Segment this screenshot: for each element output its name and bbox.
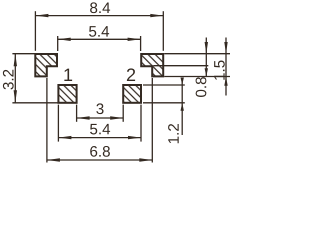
dim 3.2 text (rotated) xyxy=(3,70,14,90)
pad top-right (L-shape mirrored) xyxy=(141,54,163,76)
dim 0.8 arrow bottom (down, tip at 76.5) xyxy=(205,68,208,76)
dim 8.4 text xyxy=(90,2,110,13)
dim 6.8 extension line right xyxy=(151,78,153,163)
right side: extension line pad step (y=65.7) xyxy=(153,65,208,67)
dim 0.8 text (rotated) xyxy=(196,77,207,97)
dim 5.4 bottom arrow right xyxy=(128,136,141,139)
dim 8.4 extension line right xyxy=(162,11,164,51)
dim 1.2 extension line bottom (y=102.8) xyxy=(143,102,185,104)
dim 3.2 extension line top xyxy=(12,53,34,55)
right side: extension line pad top (y=53.7) xyxy=(164,53,230,55)
dim 1.2 extension line top (y=85) xyxy=(143,84,185,86)
dim 8.4 line xyxy=(35,15,163,17)
dim 5.4 bottom line xyxy=(58,137,141,139)
dim 8.4 extension line left xyxy=(34,11,36,51)
right side: extension line pad leg bottom (y=76.5) xyxy=(164,76,230,78)
dim 5.4 bottom text xyxy=(90,124,110,135)
dim 5.4 top arrow right xyxy=(128,38,141,41)
label 2 xyxy=(127,68,135,81)
dim 1.2 arrow top (down, tip at 85) xyxy=(181,78,184,86)
dim 1.2 arrow bottom (up, tip at 102.8) xyxy=(181,103,184,111)
dim 1.2 text (rotated) xyxy=(168,124,179,143)
dim 3 text xyxy=(96,103,103,114)
dim 3.2 line xyxy=(14,54,16,103)
dim 1.5 text (rotated) xyxy=(214,60,225,79)
dim 5.4 top extension line left xyxy=(57,36,59,51)
dim 6.8 extension line left xyxy=(46,78,48,163)
dim 5.4 top arrow left xyxy=(58,38,71,41)
dim 1.5 arrow bottom (up, tip at 76.5) xyxy=(224,77,227,86)
dim 5.4 top extension line right xyxy=(140,36,142,51)
dim 3 arrow left xyxy=(77,116,90,119)
dim 3.2 arrow top xyxy=(14,54,17,66)
pad top-left (L-shape) xyxy=(35,54,57,76)
dim 3.2 arrow bottom xyxy=(14,90,17,103)
pad 1 (square) xyxy=(58,85,76,103)
dim 6.8 arrow left xyxy=(47,158,60,161)
pad 2 (square) xyxy=(123,85,141,103)
dim 6.8 arrow right xyxy=(139,158,152,161)
dim 3.2 extension line bottom xyxy=(12,102,58,104)
dim 0.8 arrow top (down, tip at 53.7) xyxy=(205,42,208,54)
dim 5.4 top line xyxy=(58,38,141,40)
dim 1.5 line (x=226.6) xyxy=(225,38,227,96)
dim 1.2 line (x=182.2) xyxy=(181,78,183,136)
dim 8.4 arrow left xyxy=(35,14,48,17)
dim 5.4 bottom extension line left xyxy=(57,105,59,142)
dim 6.8 line xyxy=(47,159,152,161)
label 1 xyxy=(64,69,72,81)
dim 3 extension line left xyxy=(76,105,78,122)
dim 5.4 bottom extension line right xyxy=(140,105,142,142)
dim 5.4 bottom arrow left xyxy=(58,136,71,139)
dim 3 line xyxy=(77,117,124,119)
dim 3 extension line right xyxy=(122,105,124,122)
dim 8.4 arrow right xyxy=(150,14,163,17)
dim 0.8 line (x=206.3) xyxy=(205,38,207,77)
dim 3 arrow right xyxy=(110,116,123,119)
dim 1.5 arrow top (down, tip at 53.7) xyxy=(224,42,227,54)
dim 6.8 text xyxy=(90,146,110,157)
dim 5.4 top text xyxy=(89,26,109,37)
